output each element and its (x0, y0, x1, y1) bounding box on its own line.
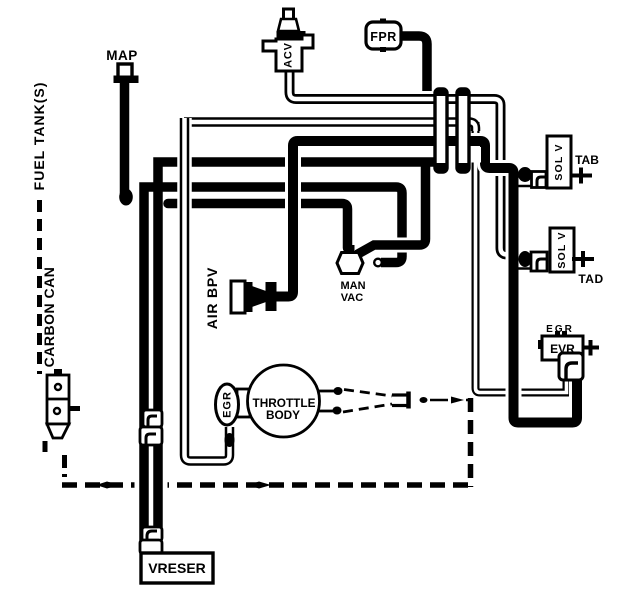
dash gap patch under hose bundle (135, 479, 168, 492)
flow arrow left on dashed line (96, 482, 119, 489)
dashed boundary line horizontal (62, 482, 473, 488)
VRESER vacuum reservoir (141, 553, 213, 583)
EGR valve (216, 384, 239, 425)
solenoid valve TAB (518, 136, 599, 188)
MAP sensor drop hose (119, 82, 133, 206)
flow arrow mid on dashed line (248, 482, 271, 489)
svg-text:VRESER: VRESER (148, 560, 206, 576)
dashed leader upper from throttle body (344, 390, 392, 397)
svg-text:BODY: BODY (266, 408, 300, 422)
hose A elbow down to VRESER and right to manifold bar (158, 162, 437, 553)
dash-dot arrow leader to dashed boundary (420, 397, 472, 404)
crossing gap patch (470, 147, 481, 163)
svg-text:CARBON CAN: CARBON CAN (41, 267, 57, 368)
MAP sensor (106, 48, 138, 83)
inline hose fitting pair above VRESER (140, 527, 162, 554)
solenoid valve TAD (519, 228, 604, 286)
hose EGR frame top run to manifold (184, 122, 476, 131)
CARBON CAN canister (41, 267, 80, 438)
throttle body (237, 365, 320, 437)
hose B elbow down to VRESER and right to MAN VAC side port (144, 187, 402, 553)
FPR regulator (366, 19, 401, 53)
stub line to TAD solenoid fitting (513, 267, 532, 270)
svg-text:AIR BPV: AIR BPV (204, 267, 220, 329)
hose C to MAN VAC top port (168, 204, 348, 249)
throttle body port stub upper (319, 387, 343, 395)
ACV valve (263, 9, 313, 71)
MAN VAC manifold vacuum fitting (337, 245, 382, 304)
svg-text:EGR: EGR (222, 391, 234, 418)
svg-text:VAC: VAC (341, 292, 363, 304)
svg-text:MAP: MAP (106, 48, 138, 63)
stub line to TAB solenoid fitting (513, 185, 534, 188)
hose EGR frame vertical down and corner to EGR valve (185, 118, 230, 461)
svg-text:SOL V: SOL V (556, 231, 568, 268)
EGR valve stem fitting blob (225, 433, 235, 447)
svg-text:MAN: MAN (340, 280, 365, 292)
svg-text:ACV: ACV (283, 42, 295, 68)
svg-text:SOL V: SOL V (553, 143, 565, 180)
hose ACV-to-TAD solenoid (290, 69, 514, 255)
manifold bar 1 (435, 89, 447, 172)
svg-text:TAD: TAD (578, 272, 603, 286)
dashed boundary line vertical (468, 398, 474, 487)
dashed line to FUEL TANK(S) (40, 200, 65, 477)
EVR bottom elbow fitting (559, 353, 583, 380)
inline hose fitting pair mid left (140, 410, 162, 445)
svg-text:FPR: FPR (370, 30, 397, 44)
dashed leader lower from throttle body (343, 404, 392, 412)
svg-text:FUEL TANK(S): FUEL TANK(S) (31, 82, 47, 191)
svg-text:TAB: TAB (575, 153, 599, 167)
throttle body port stub lower (319, 407, 342, 415)
thick hose AIR BPV riser, manifold step, down right side, U-turn up to EVR (272, 141, 577, 423)
manifold bar 2 (457, 89, 469, 172)
hose A branch to MAN VAC upper port (357, 162, 426, 255)
EGR EVR regulator (538, 324, 599, 360)
connector bracket (392, 392, 409, 409)
hose manifold-to-EVR right vertical and bottom run (476, 122, 567, 393)
AIR BPV valve (204, 267, 277, 329)
FPR elbow hose (400, 36, 427, 91)
